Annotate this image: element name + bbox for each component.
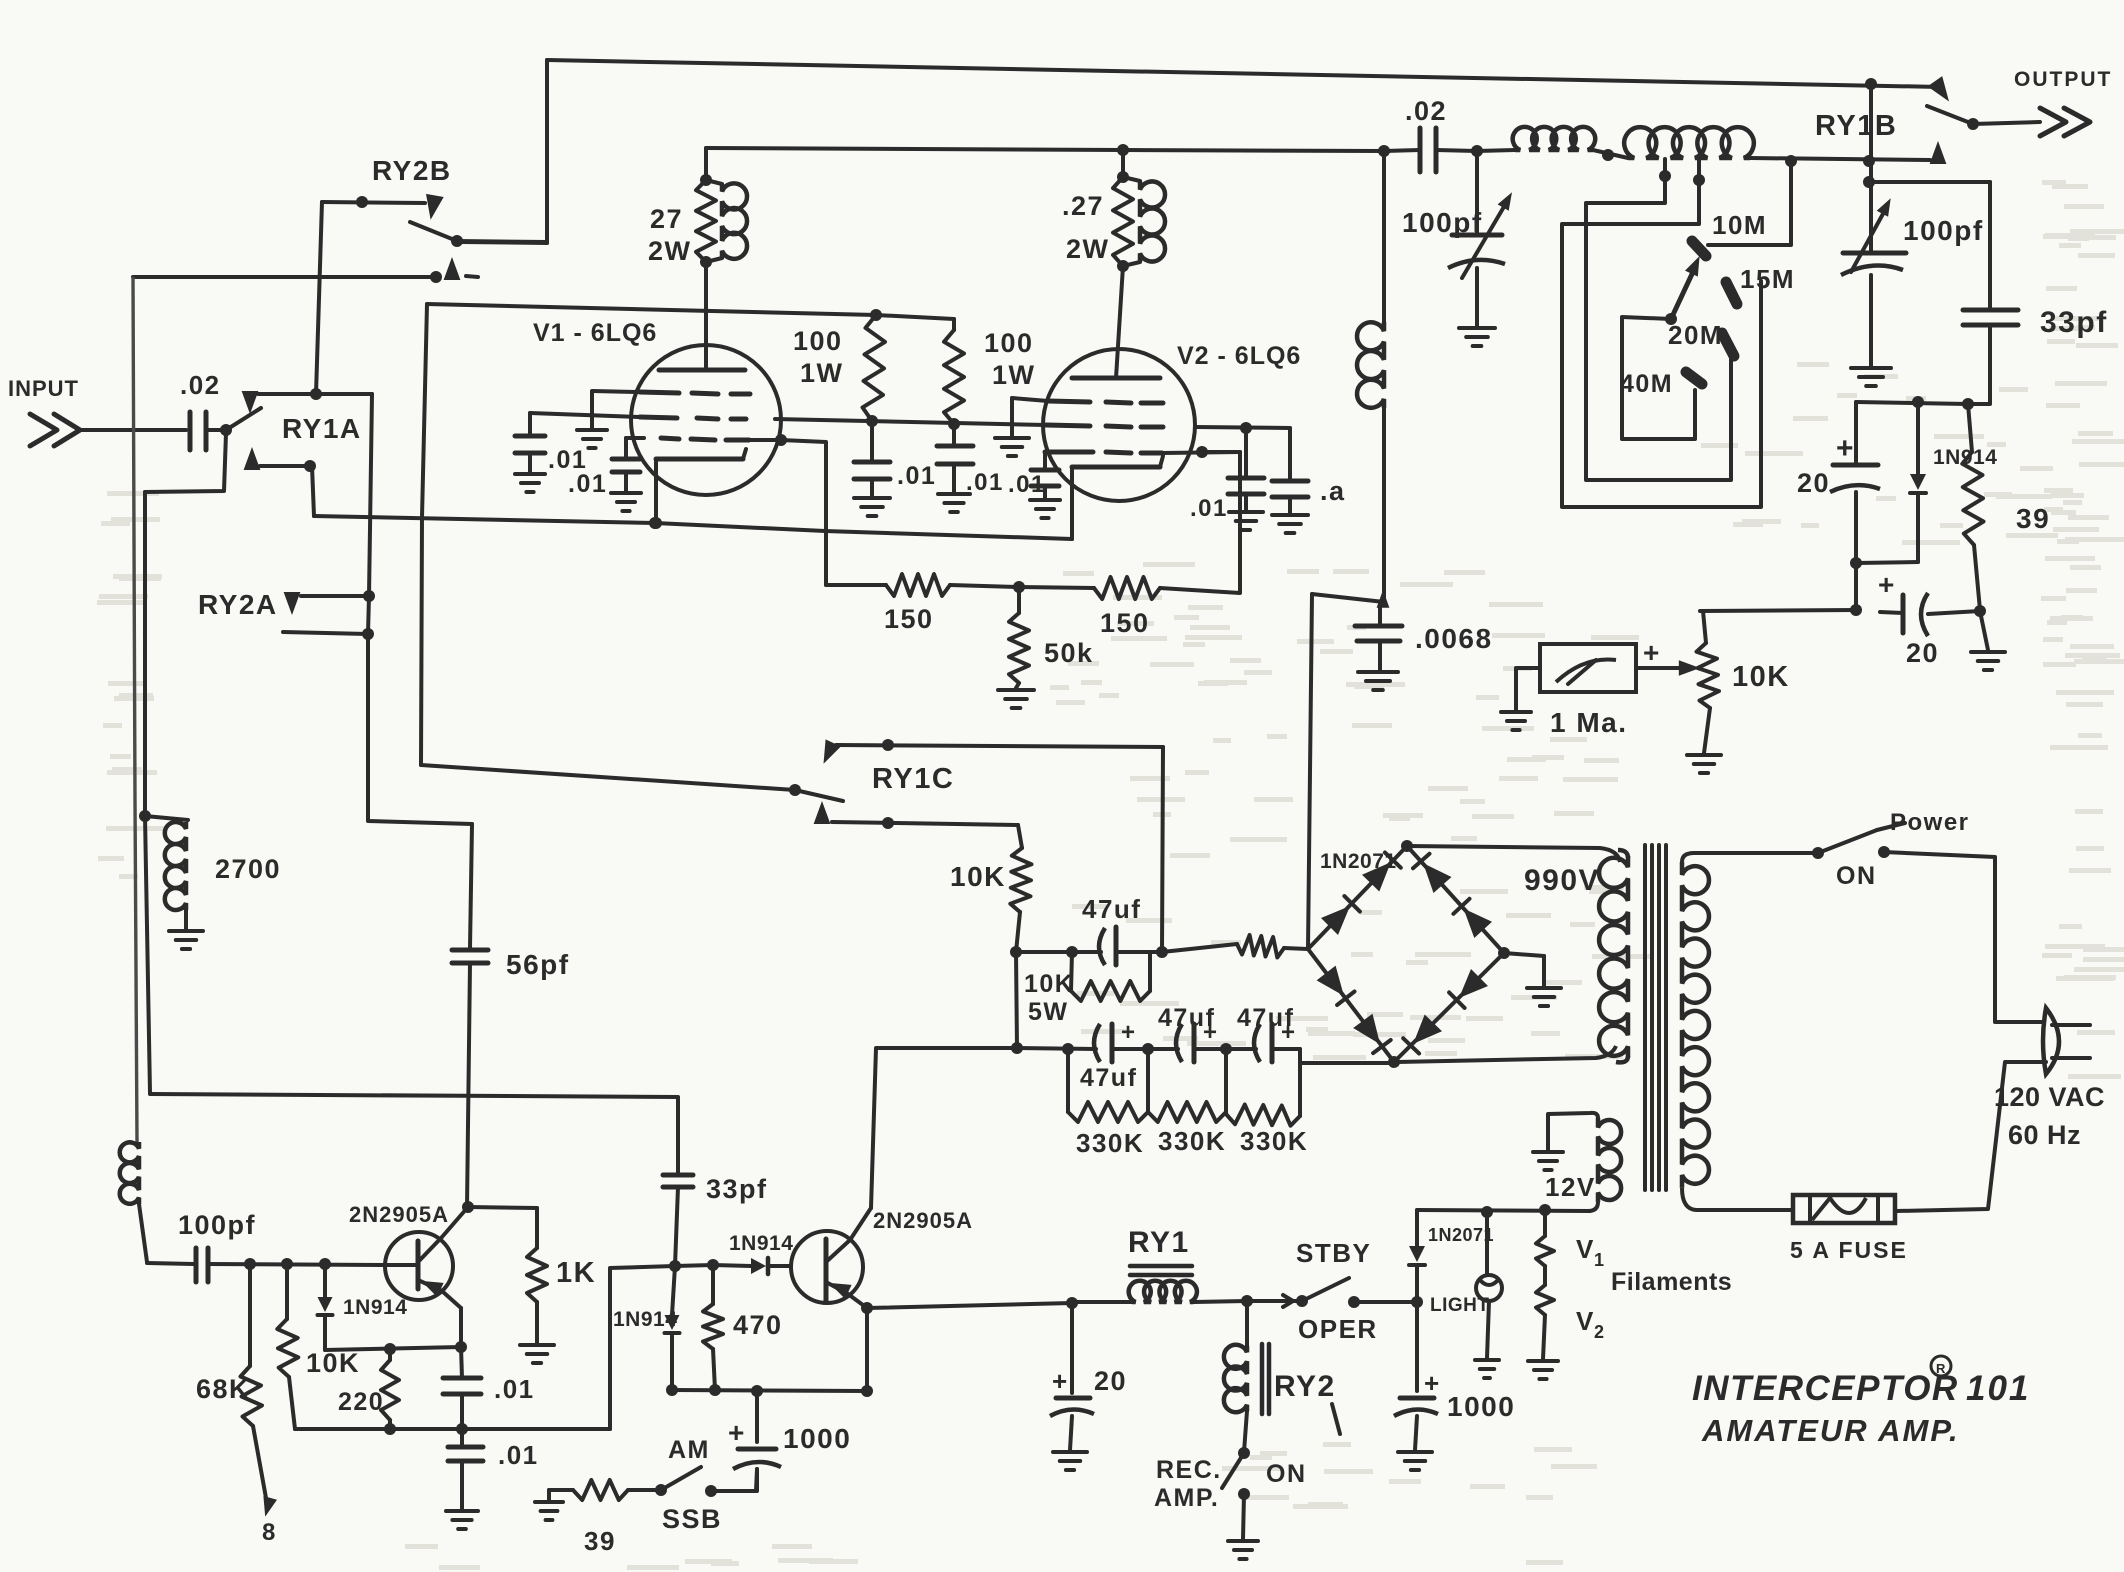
diode 1N914 det [1856,402,1997,563]
tube V2 cathode [1072,456,1163,539]
wire screen bus [427,304,954,321]
wire A to 100pf [147,1263,194,1264]
switch contact 15M [1726,264,1795,304]
svg-text:+: + [1424,1368,1441,1398]
svg-text:20: 20 [1797,468,1830,498]
wire B bottom to 33pf [150,1094,678,1175]
svg-text:AMATEUR AMP.: AMATEUR AMP. [1701,1413,1960,1448]
label 47uf bottom [1080,1064,1137,1092]
svg-text:10K: 10K [1024,970,1074,998]
svg-text:1N914: 1N914 [729,1232,793,1255]
capacitor .a c2 [1272,428,1346,533]
diode 1N914 a [318,1264,408,1350]
svg-text:.02: .02 [180,370,221,400]
wire top bus left drop [461,60,547,243]
resistor 39 b [535,1480,661,1556]
svg-text:1000: 1000 [783,1423,851,1454]
capacitor 1000 a [728,1391,851,1491]
inductor tank L2 [1624,127,1930,167]
wire plug bottom to fuse [1897,1062,2046,1211]
transformer primary winding [1599,850,1628,1062]
svg-text:100pf: 100pf [1903,215,1984,246]
resistor 10K q1 [277,1264,360,1429]
svg-text:2700: 2700 [215,854,281,884]
wire RY2B vertical [316,202,322,394]
svg-text:+: + [1878,569,1896,600]
svg-text:100pf: 100pf [178,1210,256,1240]
svg-text:330K: 330K [1158,1126,1226,1156]
wire 33pf top [1863,176,1990,310]
capacitor 33pf low [663,1174,768,1204]
wire power to plug [1884,852,2042,1022]
svg-text:INPUT: INPUT [8,376,79,401]
switch Power [1812,809,1970,890]
svg-text:1N914: 1N914 [343,1296,407,1319]
svg-text:+: + [728,1417,746,1448]
svg-text:2W: 2W [1066,234,1110,264]
svg-text:8: 8 [262,1519,277,1546]
relay contact RY1A [220,391,362,444]
resistor 220 [325,1341,467,1435]
transistor Q1 2N2905A [349,1202,468,1308]
switch contact 20M [1668,320,1734,356]
svg-text:330K: 330K [1240,1126,1308,1156]
svg-text:10K: 10K [306,1348,360,1378]
wire RY2B common [457,241,547,242]
wire RY1A upper contact [258,388,372,400]
wire 47uf row [1011,952,1096,1055]
svg-text:47uf: 47uf [1082,894,1141,924]
wire grid2 interstage [775,419,1046,425]
switch REC AMP ON [1154,1453,1307,1559]
label 990V [1524,864,1600,897]
capacitor 47uf a [1016,894,1162,965]
svg-text:.01: .01 [1190,495,1228,522]
capacitor 33pf tank [1963,306,2108,404]
svg-text:20: 20 [1906,638,1939,668]
svg-text:33pf: 33pf [706,1174,768,1204]
capacitor variable 100pf a [1402,151,1512,346]
svg-text:1K: 1K [556,1257,596,1289]
capacitor variable 100pf b [1841,84,1984,386]
capacitor 56pf [452,824,570,980]
plug 120VAC [1994,1008,2105,1150]
ground V2 grid1 [995,398,1048,498]
svg-text:33pf: 33pf [2040,306,2108,339]
diode 1N914 b [713,1232,793,1274]
switch contact 10M [1692,210,1767,256]
wire Q2 collector [871,1048,1017,1208]
svg-text:.27: .27 [1062,191,1104,221]
tube V2 grid1 [1048,401,1163,403]
wire 12V bus [1417,1204,1590,1218]
svg-text:2N2905A: 2N2905A [349,1202,449,1227]
svg-text:101: 101 [1966,1369,2030,1408]
svg-text:5 A FUSE: 5 A FUSE [1790,1237,1908,1263]
switch contact 40M [1620,370,1702,398]
svg-text:5W: 5W [1028,998,1069,1026]
diode 1N914 c [613,1266,680,1390]
svg-text:.01: .01 [897,462,936,490]
svg-text:1N2071: 1N2071 [1428,1225,1494,1245]
svg-text:330K: 330K [1076,1128,1144,1158]
resistor 150 b [1019,452,1240,638]
svg-text:1000: 1000 [1447,1391,1515,1422]
wire RY1A common down-left [145,433,226,492]
resistor 50K [1009,587,1094,688]
svg-text:.01: .01 [494,1374,535,1404]
svg-text:2N2905A: 2N2905A [873,1208,973,1233]
wire plate V2 [1116,266,1123,378]
svg-text:RY2B: RY2B [372,155,452,186]
svg-text:2W: 2W [648,236,692,266]
wire meter to pot [1636,660,1700,675]
wire 56pf to Q1 collector [467,963,470,1207]
capacitor 47uf c [1148,1004,1232,1062]
svg-text:LIGHT: LIGHT [1430,1295,1490,1316]
tube V2 grid2 [1046,422,1290,434]
svg-text:1: 1 [1594,1250,1606,1270]
ground 2700 [169,931,203,949]
capacitor .01 g3b [1030,452,1060,518]
svg-text:1W: 1W [800,358,844,388]
wire band switch tap2 [1562,159,1761,507]
wire RY1A lower to ground bus [312,466,314,516]
wire RY2A-vert to corner [368,394,472,824]
svg-text:1N914: 1N914 [613,1308,677,1331]
svg-text:R: R [1936,1361,1947,1376]
wire bias gnd bus [295,1427,610,1431]
svg-text:.01: .01 [498,1440,539,1470]
transistor Q2 2N2905A [791,1208,973,1308]
transformer core [1645,845,1666,1190]
svg-text:1 Ma.: 1 Ma. [1550,707,1628,738]
label 2700 [215,854,281,884]
wire vertical x427 [421,304,427,765]
wire RY2B lower [133,257,478,283]
label title [1692,1356,2030,1448]
capacitor .01 g3a [568,438,641,511]
capacitor 47uf d [1226,1004,1300,1062]
svg-text:V: V [1576,1306,1595,1336]
wire secondary bottom to fuse [1682,1188,1793,1210]
capacitor .01 b2 [937,424,1004,512]
wire 33pf to Q2 base node [675,1187,678,1266]
wire RY2B upper [322,196,425,208]
svg-text:AM: AM [668,1436,710,1464]
wire base node Q1 [208,1258,386,1270]
wire bridge top to xfmr [1407,846,1620,862]
svg-text:RY2A: RY2A [198,589,278,620]
resistor 10K bias [950,825,1032,958]
svg-text:V2 - 6LQ6: V2 - 6LQ6 [1177,342,1301,370]
svg-text:INTERCEPTOR: INTERCEPTOR [1692,1369,1959,1408]
svg-text:40M: 40M [1620,370,1673,398]
svg-text:50k: 50k [1044,638,1094,668]
svg-text:RY1: RY1 [1128,1226,1190,1259]
svg-text:60 Hz: 60 Hz [2008,1120,2081,1150]
svg-text:68K: 68K [196,1374,250,1404]
switch rotor arm [1671,256,1700,319]
capacitor .01 q1a [443,1347,535,1435]
resistor 39 det [1962,404,2050,610]
tube V2 plate [1072,376,1160,381]
svg-text:+: + [1121,1019,1137,1046]
svg-text:+: + [1643,637,1661,668]
wire RY1C right vert [1156,747,1168,958]
svg-text:.0068: .0068 [1415,623,1493,654]
svg-text:OPER: OPER [1298,1314,1378,1344]
svg-text:ON: ON [1836,862,1877,890]
svg-text:V: V [1576,1234,1595,1264]
svg-text:150: 150 [884,604,934,634]
switch STBY OPER [1241,1238,1417,1344]
resistor .27 2W [1062,150,1133,272]
wire top bus [547,60,1941,90]
svg-text:2: 2 [1594,1322,1606,1342]
wire left vertical A [133,277,137,1142]
capacitor .01 q1b [446,1429,539,1529]
ground filaments [1528,1268,1732,1379]
wire Q2 emitter bus [666,1302,873,1397]
inductor tank L1 [1477,127,1628,161]
svg-text:OUTPUT: OUTPUT [2014,68,2112,91]
ground det [1971,611,2005,670]
relay contact RY2B [372,155,463,247]
capacitor 20 b [1878,569,1986,668]
svg-text:RY1C: RY1C [872,763,954,795]
wire meter bus [1700,563,1862,616]
wire input to C1 [80,428,186,432]
relay coil RY1 [1072,1226,1247,1302]
svg-text:47uf: 47uf [1080,1064,1137,1092]
svg-text:.01: .01 [568,470,607,498]
wire RY2A lower [283,628,374,640]
tube V1 plate [659,368,745,373]
svg-text:SSB: SSB [662,1504,722,1534]
potentiometer 10K [1687,611,1790,773]
svg-text:ON: ON [1266,1460,1307,1488]
fuse 5A [1790,1195,1908,1263]
svg-text:STBY: STBY [1296,1238,1371,1268]
bridge rectifier 1N2071 [1308,840,1510,1068]
wire Q1 emitter [459,1308,463,1347]
capacitor .02 plate [1384,96,1483,172]
transformer 12V winding [1548,1113,1621,1211]
ground V1 grid1 [577,392,607,448]
capacitor 100pf input [178,1210,256,1282]
wire 47uf row end [1300,1049,1394,1063]
relay contact RY1C upper [824,739,1164,764]
wire bridge ground [1504,953,1561,1006]
resistor 68K [196,1264,277,1546]
tube V1 envelope [533,319,781,495]
svg-text:39: 39 [2016,503,2050,534]
node choke bottom [1308,590,1389,949]
resistor 470 [703,1265,783,1390]
svg-text:RY1A: RY1A [282,413,362,444]
svg-text:.01: .01 [966,469,1004,496]
inductor 2700 [145,816,188,929]
svg-text:56pf: 56pf [506,949,570,980]
capacitor 20 a [1797,402,1880,569]
resistor 10K 5W [1024,952,1150,1026]
wire RY1C common [421,765,843,801]
resistor feed bridge [1162,935,1308,958]
meter 1Ma [1540,637,1661,738]
tube V1 grid3 [626,438,749,440]
svg-text:100: 100 [984,328,1034,358]
wire output [1973,68,2112,136]
tube V2 envelope [1043,342,1301,501]
svg-text:.02: .02 [1405,96,1447,126]
wire 20uf top [1856,396,1974,410]
relay contact RY1C lower [814,801,1018,829]
transformer secondary winding [1682,862,1709,1188]
resistor 330K c [1226,1063,1308,1156]
switch AM SSB [655,1436,757,1534]
capacitor .01 g2a [515,413,587,492]
relay contact RY2A [198,589,375,620]
resistor 1K [520,1208,596,1363]
capacitor 47uf b [1094,1019,1154,1062]
svg-text:27: 27 [650,204,683,234]
capacitor 20 c [1050,1303,1127,1470]
wire band switch tap1 [1586,159,1731,480]
relay contact RY1B lower [1930,141,1947,164]
wire plate V1 [704,262,708,370]
lamp LIGHT [1430,1212,1502,1378]
svg-text:47uf: 47uf [1158,1004,1215,1032]
svg-text:12V: 12V [1545,1172,1596,1202]
svg-text:Filaments: Filaments [1611,1268,1732,1296]
ground 50K [998,690,1034,708]
inductor .27 2W [1123,177,1165,266]
wire band switch 10M [1708,161,1791,245]
relay coil RY2 [1224,1301,1340,1459]
resistor V1 filament [1536,1210,1606,1285]
resistor V2 filament [1536,1285,1606,1359]
svg-text:20: 20 [1094,1366,1127,1396]
svg-text:Power: Power [1890,809,1970,836]
svg-text:.a: .a [1320,476,1346,506]
svg-text:100: 100 [793,326,843,356]
svg-text:120 VAC: 120 VAC [1994,1082,2105,1112]
svg-text:15M: 15M [1740,264,1795,294]
svg-text:+: + [1836,432,1855,465]
svg-text:150: 150 [1100,608,1150,638]
wire secondary top [1682,853,1818,862]
tube V1 grid2 [530,413,746,419]
capacitor .01 c1 [1190,428,1264,530]
wire bridge bottom to xfmr [1394,1046,1616,1062]
wire Q2 emitter to RY1 [867,1297,1078,1309]
svg-text:10K: 10K [950,861,1006,892]
capacitor .01 b1 [854,421,936,516]
tube V1 grid1 [592,391,750,394]
inductor plate choke [1357,151,1384,600]
svg-text:470: 470 [733,1310,783,1340]
svg-text:10K: 10K [1732,661,1790,693]
wire left vertical B [139,492,151,1093]
tube V1 cathode [650,449,746,529]
resistor 330K a [1068,1049,1148,1158]
wire Q1 collector node [462,1201,537,1213]
svg-text:990V: 990V [1524,864,1600,897]
relay contact RY1A lower [244,447,316,472]
svg-text:39: 39 [584,1526,616,1556]
svg-text:1W: 1W [992,360,1036,390]
capacitor 1000 b [1394,1302,1515,1470]
svg-text:220: 220 [338,1388,384,1416]
relay contact RY1B [1815,76,1979,142]
inductor 27 2W [706,180,747,262]
svg-text:1N2071: 1N2071 [1320,850,1397,873]
svg-text:+: + [1052,1366,1069,1396]
resistor 330K b [1148,1049,1226,1156]
wire V1 grid3 tap [749,434,826,585]
node INPUT [8,376,80,446]
wire band switch pivot box [1622,313,1695,439]
svg-text:10M: 10M [1712,210,1767,240]
resistor 150 a [826,574,1025,634]
resistor 100 1W a [793,315,885,427]
resistor 27 2W [648,174,716,268]
ground 12V [1533,1114,1596,1202]
diode 1N2071 b [1409,1210,1494,1308]
svg-text:100pf: 100pf [1402,207,1483,238]
label RY1C [872,763,954,795]
wire HV bus [706,144,1390,180]
svg-text:20M: 20M [1668,320,1723,350]
capacitor .0068 [1355,602,1493,690]
capacitor C1 .02 input [180,370,221,450]
tube V2 grid3 [1045,446,1240,458]
ground bus [314,516,1072,539]
svg-text:REC.: REC. [1156,1456,1222,1484]
svg-text:AMP.: AMP. [1154,1484,1219,1512]
svg-text:47uf: 47uf [1237,1004,1294,1032]
wire to Q2 base [610,1259,719,1429]
svg-text:RY2: RY2 [1274,1370,1336,1403]
wire meter left ground [1501,668,1540,730]
svg-text:RY1B: RY1B [1815,110,1897,142]
wire C1 to RY1A [206,428,226,432]
svg-text:V1 - 6LQ6: V1 - 6LQ6 [533,319,657,347]
resistor 100 1W b [944,319,1036,430]
inductor input A [120,1142,147,1262]
